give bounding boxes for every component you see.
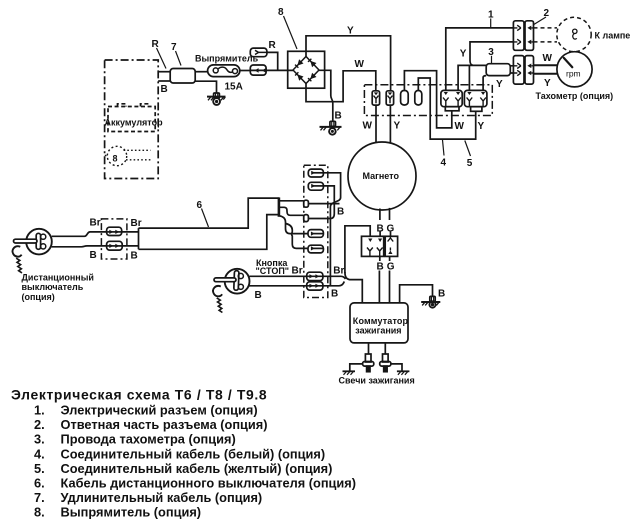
wires boxes to commutator xyxy=(378,256,380,303)
connector 2 (lamp connector pair) xyxy=(513,21,533,51)
svg-text:B: B xyxy=(131,250,138,261)
wire magneto W to b1 xyxy=(375,105,377,142)
wire R battery to connector 7 xyxy=(158,71,170,73)
wire Y to tach cable xyxy=(483,76,486,91)
spare bullet T1 xyxy=(308,169,323,177)
cable 6 (remote switch cable) xyxy=(139,198,279,249)
svg-text:Тахометр (опция): Тахометр (опция) xyxy=(536,91,614,101)
svg-text:B: B xyxy=(161,84,168,95)
rectifier (Выпрямитель, item 8) box xyxy=(288,51,325,88)
wires connectors to cable 6 xyxy=(122,232,139,246)
svg-text:Y: Y xyxy=(478,121,485,132)
stop bullet pair B xyxy=(307,282,323,290)
wires tach connector to gauge xyxy=(534,65,558,73)
svg-text:К лампе: К лампе xyxy=(595,31,631,41)
svg-text:5.: 5. xyxy=(34,461,45,476)
wire link b4 to connector5 (Y) xyxy=(418,78,475,139)
svg-text:W: W xyxy=(455,121,465,132)
svg-text:7.: 7. xyxy=(34,490,45,505)
magneto xyxy=(348,142,416,210)
svg-text:Электрическая схема Т6 / Т8 /: Электрическая схема Т6 / Т8 / Т9.8 xyxy=(11,387,267,403)
svg-text:Ответная часть разъема (опция): Ответная часть разъема (опция) xyxy=(61,417,268,432)
lamp filament symbol xyxy=(573,29,577,33)
svg-text:Y: Y xyxy=(460,49,467,60)
bullet b2 xyxy=(386,91,393,105)
wire connector7 to fuse xyxy=(195,71,207,73)
svg-text:Br: Br xyxy=(90,218,101,229)
wire T2 down xyxy=(323,186,334,214)
svg-text:6.: 6. xyxy=(34,476,45,491)
ground G2 xyxy=(320,121,342,134)
wire B rectifier to ground G2 xyxy=(319,70,333,121)
rectifier bridge diamond xyxy=(293,57,319,84)
svg-text:W: W xyxy=(543,53,553,64)
svg-text:Дистанционный: Дистанционный xyxy=(22,272,94,282)
cable 6 wire to bullet M1 xyxy=(280,216,309,234)
bullet b1 xyxy=(372,91,379,105)
stop button (Кнопка СТОП) xyxy=(213,269,249,313)
tach wires box (item 3) xyxy=(486,64,510,76)
svg-text:15A: 15A xyxy=(225,81,243,92)
svg-text:4: 4 xyxy=(441,158,447,169)
connector 4 (white cable) xyxy=(441,90,462,110)
ground G1 xyxy=(207,93,226,105)
kill wire corner into box A xyxy=(345,226,370,273)
wire Y to lamp connector (with crossover jog) xyxy=(470,42,513,65)
svg-text:Y: Y xyxy=(394,120,401,131)
svg-text:Свечи зажигания: Свечи зажигания xyxy=(339,375,415,385)
svg-text:Y: Y xyxy=(347,26,354,37)
svg-text:Br: Br xyxy=(292,265,303,276)
commutator (Коммутатор зажигания) xyxy=(350,303,408,343)
connector box A (B + kill) xyxy=(362,236,384,256)
battery dotted circle detail xyxy=(107,146,126,165)
connector 7 (удлинительный кабель) xyxy=(170,69,195,84)
svg-text:Провода тахометра (опция): Провода тахометра (опция) xyxy=(61,432,236,447)
wire fuse to bullet connector xyxy=(240,70,251,72)
remote connector B xyxy=(107,241,123,250)
ground G3 xyxy=(421,296,440,307)
svg-text:Y: Y xyxy=(544,78,551,89)
svg-text:B: B xyxy=(438,288,445,299)
svg-text:4.: 4. xyxy=(34,446,45,461)
svg-text:зажигания: зажигания xyxy=(355,326,401,336)
svg-text:Аккумулятор: Аккумулятор xyxy=(105,118,164,128)
svg-text:Электрический разъем (опция): Электрический разъем (опция) xyxy=(61,403,258,418)
tachometer connector xyxy=(513,56,533,85)
wire W to tach cable xyxy=(458,65,486,90)
wire stop Br xyxy=(250,276,346,279)
bullet b4 xyxy=(415,91,422,106)
diode LL xyxy=(295,72,303,80)
connector box B (G) xyxy=(385,236,397,256)
svg-text:8: 8 xyxy=(113,154,118,164)
svg-text:Коммутатор: Коммутатор xyxy=(353,316,409,326)
battery body dashed xyxy=(108,104,155,132)
wire T1 to B net xyxy=(323,173,340,286)
svg-text:B: B xyxy=(255,290,262,301)
dashed wires to lamp xyxy=(534,28,558,42)
svg-text:B: B xyxy=(331,289,338,300)
svg-text:3.: 3. xyxy=(34,432,45,447)
wire stop B xyxy=(249,282,344,286)
vertical strip dash-dot box xyxy=(304,165,328,297)
battery dotted detail lines xyxy=(105,150,151,160)
svg-text:(опция): (опция) xyxy=(22,292,55,302)
svg-text:2.: 2. xyxy=(34,417,45,432)
wire W to lamp connector xyxy=(446,28,514,91)
svg-text:B: B xyxy=(335,111,342,122)
wire magneto G to connector box B xyxy=(389,208,391,220)
svg-text:"СТОП": "СТОП" xyxy=(256,266,290,276)
spark plug wires xyxy=(369,343,386,354)
svg-text:выключатель: выключатель xyxy=(22,282,84,292)
rpm gauge xyxy=(557,52,592,87)
lamp dashed circle xyxy=(557,17,591,51)
diode UL xyxy=(295,59,304,68)
bullet M2 xyxy=(308,245,323,253)
svg-text:5: 5 xyxy=(467,158,473,169)
svg-text:1.: 1. xyxy=(34,403,45,418)
svg-text:Удлинительный кабель (опция): Удлинительный кабель (опция) xyxy=(61,490,263,505)
svg-text:Соединительный кабель (желтый): Соединительный кабель (желтый) (опция) xyxy=(61,461,333,476)
svg-text:Соединительный кабель (белый): Соединительный кабель (белый) (опция) xyxy=(61,446,326,461)
wire commutator B to ground G3 xyxy=(400,285,433,303)
legend list xyxy=(34,403,356,520)
kill wire junction to commutator xyxy=(345,272,362,303)
fuse 15A xyxy=(208,65,240,77)
bullet M1 xyxy=(308,230,323,238)
svg-text:B: B xyxy=(337,206,344,217)
stubs box3 to tach connector xyxy=(510,66,513,73)
wire R branch to rectifier xyxy=(266,52,293,70)
remote connector dash-dot box xyxy=(101,219,127,259)
wire magneto B to connector box A xyxy=(379,209,381,221)
cable 6 wire to bullet M2 xyxy=(286,224,308,249)
svg-text:R: R xyxy=(152,39,160,50)
spare bullet T2 xyxy=(308,182,323,190)
wire Y rectifier top loop to bullet b2 xyxy=(306,36,391,91)
svg-text:Магнето: Магнето xyxy=(363,171,400,181)
wire W rectifier bottom to bullet b1 xyxy=(306,71,376,102)
svg-text:G: G xyxy=(387,223,395,234)
battery (Аккумулятор) option dash-dot box xyxy=(105,60,159,179)
remote connector Br xyxy=(107,227,122,235)
diode UR xyxy=(308,59,317,67)
remote switch (Дистанционный выключатель) xyxy=(13,229,52,273)
bullet connector R upper (item 1 mate) xyxy=(250,48,267,57)
spark plug 1 xyxy=(363,354,374,372)
svg-text:8.: 8. xyxy=(34,505,45,520)
svg-text:W: W xyxy=(363,120,373,131)
svg-text:Br: Br xyxy=(333,265,344,276)
svg-text:W: W xyxy=(355,59,365,70)
svg-text:Y: Y xyxy=(496,79,503,90)
svg-text:R: R xyxy=(269,40,277,51)
wire link b3 to connector4 (W) xyxy=(404,71,451,128)
svg-text:Кабель дистанционного выключат: Кабель дистанционного выключателя (опция… xyxy=(61,476,357,491)
svg-text:rpm: rpm xyxy=(566,69,581,79)
svg-text:G: G xyxy=(387,261,395,272)
svg-text:B: B xyxy=(90,250,97,261)
svg-text:Выпрямитель (опция): Выпрямитель (опция) xyxy=(61,505,202,520)
wires remote switch to connectors xyxy=(52,232,107,236)
connector 5 (yellow cable) xyxy=(464,90,487,111)
plug ground right xyxy=(391,364,402,371)
diode LR xyxy=(308,73,317,82)
wire B battery to connector 7 xyxy=(158,80,170,82)
wire magneto Y to b2 xyxy=(389,105,391,143)
bullet b3 xyxy=(401,91,409,106)
spark plug 2 xyxy=(380,354,391,372)
cable 6 terminal w2 xyxy=(280,207,304,215)
svg-text:Выпрямитель: Выпрямитель xyxy=(195,54,259,64)
connector row option dash-dot box xyxy=(364,85,492,116)
stop bullet pair Br xyxy=(307,272,323,280)
cable 6 terminal w1 xyxy=(280,200,304,202)
wire B to ground xyxy=(195,81,216,93)
bullet connector R lower xyxy=(250,65,266,75)
svg-text:B: B xyxy=(377,223,384,234)
plug ground left xyxy=(350,364,363,371)
